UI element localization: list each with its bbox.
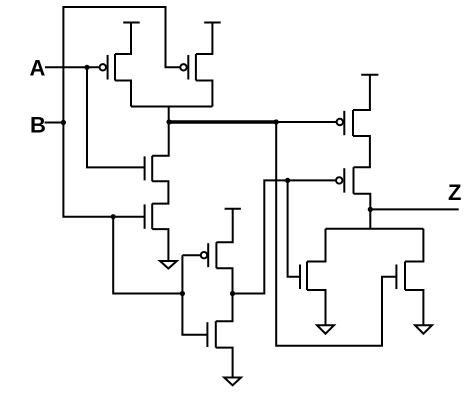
- transistor PMOS1 channel: [114, 54, 116, 81]
- wire PMOS5 gate: [182, 254, 200, 256]
- transistor NMOS3 channel: [215, 321, 217, 347]
- transistor PMOS4 gate bubble: [336, 177, 342, 183]
- node A junction dot: [84, 65, 89, 70]
- wire NMOS1 source to NMOS2 drain: [152, 181, 168, 203]
- wire NMOS5 source to ground: [405, 290, 423, 325]
- wire N1 to NMOS5 gate: [276, 122, 396, 346]
- wire rail to NMOS5 drain: [405, 229, 423, 262]
- node on NMOS2 gate wire junction dot: [111, 214, 116, 219]
- transistor PMOS4 gate bar: [343, 168, 345, 192]
- power VDD2 supply bar: [204, 22, 221, 24]
- wire input B: [45, 122, 64, 124]
- transistor PMOS5 gate bubble: [201, 252, 207, 258]
- wire output Z: [370, 208, 458, 210]
- wire inverter gate vertical: [182, 255, 207, 335]
- transistor NMOS4 channel: [306, 262, 308, 291]
- transistor NMOS4 gate bar: [299, 265, 301, 290]
- transistor PMOS1 gate bar: [107, 55, 109, 80]
- transistor NMOS2 (B) gate bar: [144, 204, 146, 228]
- wire PMOS4 drain to output node: [354, 194, 371, 210]
- transistor NMOS1 (A) gate bar: [144, 156, 146, 180]
- node N1 left junction dot: [166, 119, 171, 124]
- wire PMOS1 drain: [115, 81, 131, 107]
- wire PMOS3 drain to PMOS4 source: [353, 136, 370, 167]
- svg-text:A: A: [30, 56, 46, 81]
- ground symbol below NMOS4: [317, 325, 334, 334]
- transistor NMOS1 channel: [151, 156, 153, 182]
- transistor PMOS5 gate bar: [207, 243, 209, 267]
- node PMOS4 gate junction dot: [285, 178, 290, 183]
- wire VDD2 to PMOS2 source: [196, 23, 213, 55]
- transistor NMOS5 gate bar: [395, 265, 397, 290]
- wire VDD4 to PMOS5 source: [216, 209, 232, 243]
- transistor NMOS3 gate bar: [206, 322, 208, 347]
- power VDD1 supply bar: [123, 22, 140, 24]
- wire NMOS3 source to ground: [216, 348, 233, 378]
- wire PMOS4 gate node to NMOS4 gate: [288, 180, 300, 276]
- node B junction dot: [61, 120, 66, 125]
- svg-text:B: B: [30, 113, 46, 138]
- transistor PMOS3 gate bubble: [337, 119, 343, 125]
- wire tap down to NMOS1 drain: [152, 107, 169, 156]
- net N1 thick highlighted wire: [169, 120, 276, 123]
- wire inverter output to PMOS4 gate: [233, 180, 337, 293]
- wire NMOS4/NMOS5 drain rail: [326, 228, 424, 230]
- node N1 right junction dot: [274, 119, 279, 124]
- wire NMOS2 source to ground: [152, 229, 168, 261]
- node Z output junction dot: [368, 207, 373, 212]
- wire Z down to NMOS rail: [369, 209, 371, 228]
- transistor NMOS2 channel: [151, 204, 153, 230]
- ground symbol below NMOS5: [415, 325, 432, 334]
- node inverter input junction dot: [180, 291, 185, 296]
- ground symbol below NMOS2: [160, 261, 177, 269]
- ground symbol below NMOS3: [224, 378, 241, 386]
- transistor PMOS3 gate bar: [343, 111, 345, 135]
- wire B down to NMOS2 gate: [63, 123, 144, 217]
- wire input A: [45, 66, 100, 68]
- transistor PMOS2 gate bar: [187, 55, 189, 80]
- transistor PMOS3 channel: [352, 110, 354, 136]
- wire PMOS2 drain: [196, 81, 213, 107]
- transistor NMOS5 channel: [404, 262, 406, 291]
- wire rail to NMOS4 drain: [307, 229, 326, 262]
- svg-text:Z: Z: [448, 180, 461, 205]
- power VDD4 supply bar: [225, 208, 241, 210]
- wire B branch to inverter input: [113, 217, 182, 294]
- node inverter output junction dot: [230, 291, 235, 296]
- transistor PMOS2 (B) gate bubble: [180, 64, 186, 70]
- transistor PMOS1 (A) gate bubble: [100, 64, 106, 70]
- transistor PMOS5 channel: [215, 242, 217, 268]
- wire B over top to PMOS2 gate: [63, 7, 180, 123]
- wire VDD3 to PMOS3 source: [353, 75, 370, 110]
- wire PMOS5 drain to NMOS3 drain: [216, 268, 233, 321]
- transistor PMOS4 channel: [353, 167, 355, 194]
- wire VDD1 to PMOS1 source: [115, 23, 131, 55]
- wire A to NMOS1 gate: [87, 67, 145, 167]
- power VDD3 supply bar: [361, 74, 378, 76]
- wire PMOS drains join: [131, 106, 212, 108]
- wire N1 to PMOS3 gate: [276, 121, 336, 123]
- wire NMOS4 source to ground: [307, 290, 326, 325]
- transistor PMOS2 channel: [195, 54, 197, 81]
